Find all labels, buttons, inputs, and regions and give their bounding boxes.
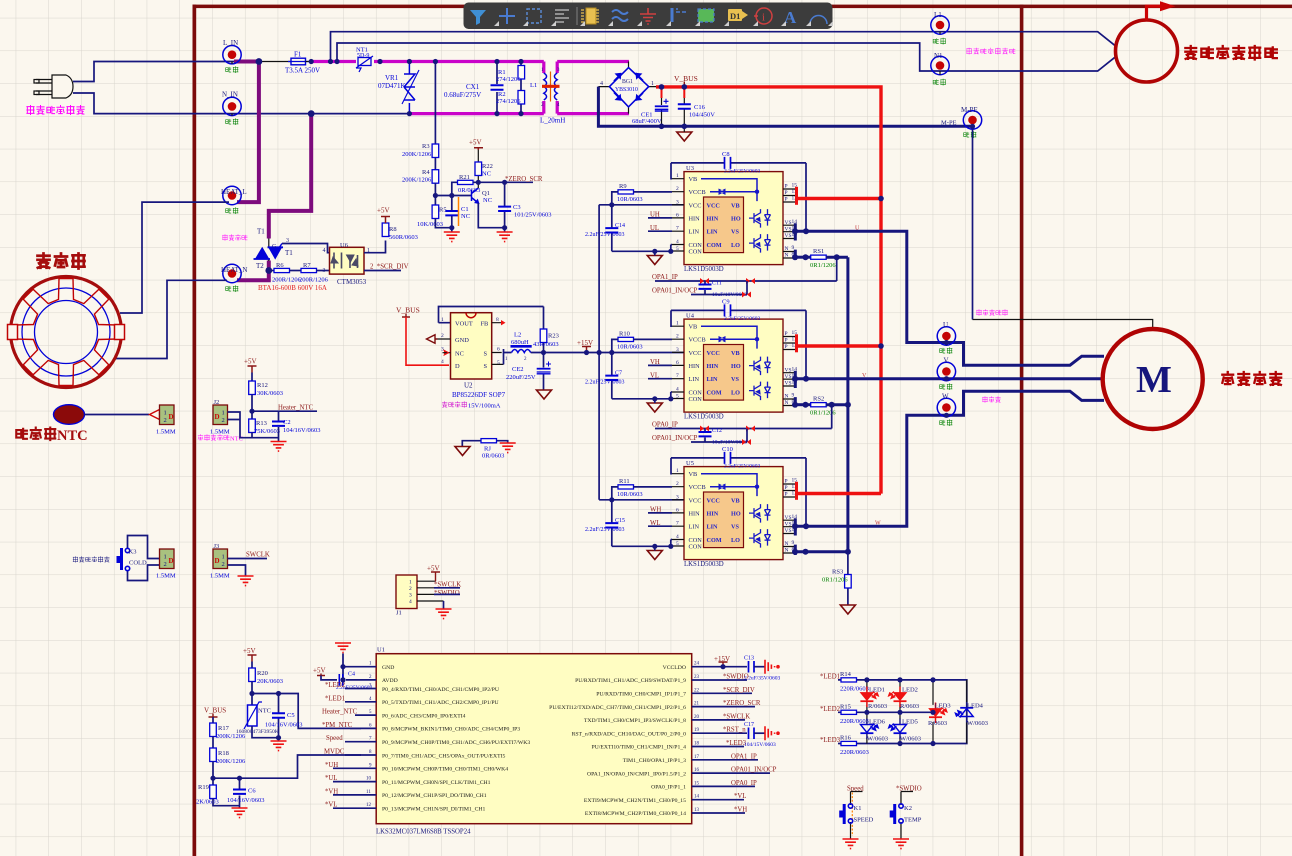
LED network rails: [838, 680, 967, 744]
wire NTC bulb to connector: [85, 414, 150, 416]
svg-text:R14: R14: [840, 671, 852, 678]
svg-text:N_IN: N_IN: [222, 91, 238, 99]
pad HEAT_N: [223, 264, 241, 282]
svg-text:2 *SCR_DIV: 2 *SCR_DIV: [370, 264, 409, 271]
svg-text:220uF/25V: 220uF/25V: [506, 374, 536, 381]
gate driver U5: [672, 467, 797, 568]
svg-text:*UL: *UL: [325, 775, 337, 782]
svg-text:2.2uF/25V/0603: 2.2uF/25V/0603: [585, 527, 625, 533]
brushless motor M: [1103, 329, 1203, 429]
svg-text:R18: R18: [218, 750, 229, 757]
wire +15V rail: [531, 352, 684, 354]
svg-text:R15: R15: [840, 703, 851, 710]
svg-text:L_IN: L_IN: [223, 39, 238, 47]
svg-text:VOUT: VOUT: [455, 321, 473, 328]
svg-text:J1: J1: [396, 610, 402, 617]
svg-text:3: 3: [323, 268, 326, 274]
LED5: [899, 712, 901, 743]
resistor RS1: [811, 255, 827, 259]
resistor R19: [210, 785, 217, 799]
svg-text:R6: R6: [276, 262, 284, 269]
svg-text:2.2uF/35V/0603: 2.2uF/35V/0603: [744, 676, 780, 682]
capacitor C16: [683, 87, 685, 98]
svg-text:200K/1206: 200K/1206: [402, 151, 432, 158]
wire red P row U3: [797, 197, 881, 200]
svg-text:D: D: [169, 557, 174, 565]
shunt bus vertical: [846, 257, 849, 552]
svg-text:R/0603: R/0603: [900, 703, 919, 710]
svg-text:+5V: +5V: [377, 207, 390, 215]
svg-text:K3: K3: [129, 549, 137, 556]
svg-text:T2: T2: [256, 262, 264, 270]
svg-text:C10: C10: [722, 446, 733, 453]
svg-text:4: 4: [323, 248, 326, 254]
svg-text:*SWDIO: *SWDIO: [434, 590, 460, 597]
wire purple triac bottom to HEAT_N: [237, 261, 269, 281]
svg-text:COLD: COLD: [129, 560, 147, 567]
varistor VR1: [378, 63, 419, 115]
resistor R3: [432, 144, 439, 158]
svg-text:V: V: [944, 357, 949, 365]
svg-text:560R/0603: 560R/0603: [389, 234, 418, 241]
svg-text:L1: L1: [934, 11, 942, 19]
svg-text:VR1: VR1: [385, 74, 399, 82]
svg-text:L2: L2: [514, 332, 521, 339]
pad W: [937, 398, 955, 416]
svg-text:D: D: [169, 413, 174, 421]
svg-text:10R/0603: 10R/0603: [617, 344, 643, 351]
svg-text:i: i: [762, 12, 765, 24]
label 接电机: [983, 397, 1001, 403]
wire W phase: [795, 391, 1104, 526]
wire red P row U5: [797, 492, 881, 495]
outlet NTC sensor bulb: [54, 405, 85, 425]
wire M-PE to motor shell: [972, 129, 974, 319]
svg-text:TXD/TIM1_CH0/CMP1_IP3/SWCLK/P1: TXD/TIM1_CH0/CMP1_IP3/SWCLK/P1_8: [584, 718, 686, 724]
svg-text:LED2: LED2: [902, 687, 918, 694]
svg-text:W/0603: W/0603: [867, 736, 888, 743]
svg-text:L_20mH: L_20mH: [540, 117, 565, 125]
svg-text:*UH: *UH: [325, 762, 338, 769]
MCU U1 LKS32MC037: [376, 654, 692, 824]
label 出风口NTC: [16, 428, 55, 441]
svg-text:104/16V/0603: 104/16V/0603: [265, 722, 303, 729]
resistor RS3: [847, 552, 849, 605]
wire CON row U5: [612, 540, 672, 547]
label 接发热丝: [223, 235, 248, 241]
svg-text:PU/EXTI12/TXD/ADC_CH7/TIM0_CH1: PU/EXTI12/TXD/ADC_CH7/TIM0_CH1/CMP1_IP2/…: [549, 705, 686, 711]
label 无刷电机: [1222, 372, 1281, 385]
svg-text:RS2: RS2: [813, 396, 824, 403]
svg-text:2: 2: [222, 561, 225, 568]
ground red at C6: [232, 808, 248, 818]
svg-text:OPA1_IN/OPA0_IN/CMP1_IP0/P1.5/: OPA1_IN/OPA0_IN/CMP1_IP0/P1.5/P1_2: [587, 771, 686, 777]
wire N row U4 to RS2: [795, 403, 811, 406]
resistor R15: [841, 710, 857, 714]
svg-text:+5V: +5V: [427, 565, 440, 573]
capacitor C12: [704, 429, 706, 443]
svg-text:C4: C4: [348, 672, 355, 678]
svg-text:C6: C6: [248, 788, 256, 795]
svg-text:C15: C15: [615, 518, 625, 524]
svg-text:200K/1206: 200K/1206: [216, 733, 246, 740]
pad N1: [931, 56, 949, 74]
wire V phase: [795, 377, 1103, 380]
svg-text:P0_6/ADC_CH3/CMP0_IP0/EXTI4: P0_6/ADC_CH3/CMP0_IP0/EXTI4: [382, 713, 466, 719]
wire magenta AC L bus: [311, 60, 629, 63]
svg-text:R21: R21: [459, 174, 470, 181]
svg-text:V_BUS: V_BUS: [674, 74, 698, 83]
svg-text:D: D: [455, 363, 460, 370]
svg-text:Heater_NTC: Heater_NTC: [322, 709, 358, 716]
svg-text:BTA16-600B 600V 16A: BTA16-600B 600V 16A: [258, 284, 327, 292]
svg-text:R3: R3: [422, 143, 430, 150]
resistor R1: [520, 62, 522, 92]
svg-text:T1: T1: [285, 249, 293, 257]
wire CON row U4: [612, 392, 672, 399]
svg-text:NTC: NTC: [258, 708, 271, 715]
capacitor C3: [478, 182, 504, 232]
pad HEAT_L: [223, 186, 241, 204]
svg-text:11: 11: [366, 790, 371, 795]
capacitor C2: [278, 411, 280, 441]
svg-text:SPEED: SPEED: [854, 817, 874, 824]
svg-text:1.5MM: 1.5MM: [156, 429, 176, 436]
svg-text:1: 1: [409, 580, 412, 586]
capacitor C4: [339, 674, 343, 686]
regulator U2 BP85226DF: [427, 307, 544, 410]
svg-text:+5V: +5V: [243, 647, 256, 655]
svg-text:+5V: +5V: [313, 667, 326, 675]
power +5V at R8: [381, 217, 390, 224]
svg-text:F1: F1: [294, 51, 302, 59]
wire R20 node to MCU: [213, 694, 361, 779]
svg-text:S: S: [484, 363, 488, 370]
svg-text:U3: U3: [686, 165, 694, 172]
wire U phase: [795, 231, 1104, 365]
svg-text:C12: C12: [712, 428, 722, 434]
svg-text:1.5MM: 1.5MM: [210, 573, 230, 580]
svg-text:+15V: +15V: [577, 339, 593, 347]
svg-text:LED6: LED6: [869, 719, 886, 726]
power +5V at R22: [474, 148, 483, 150]
svg-text:2: 2: [222, 417, 225, 424]
svg-text:GND: GND: [455, 337, 469, 344]
svg-text:BG1: BG1: [622, 79, 633, 85]
svg-text:*LED3: *LED3: [820, 737, 841, 744]
svg-text:W/0603: W/0603: [900, 736, 921, 743]
MCU left inner pin names: [382, 665, 530, 813]
svg-text:*ZERO_SCR: *ZERO_SCR: [723, 700, 761, 707]
wire AC sense to divider: [434, 62, 436, 145]
wire N from plug: [73, 93, 311, 114]
inductor L1 common-mode choke: [530, 62, 565, 125]
toolbar: [464, 3, 834, 30]
wire purple L leg to HEAT_L: [234, 62, 259, 203]
svg-text:R/0603: R/0603: [928, 720, 947, 727]
resistor R14: [841, 678, 857, 682]
svg-text:C7: C7: [615, 371, 622, 377]
svg-text:Speed: Speed: [326, 735, 343, 742]
connector for K3: [160, 549, 175, 569]
svg-text:W: W: [942, 393, 949, 401]
svg-text:10R/0603: 10R/0603: [617, 196, 643, 203]
wire magenta AC N bus: [409, 112, 629, 115]
svg-text:*LED1: *LED1: [325, 695, 345, 702]
svg-text:CTM3053: CTM3053: [337, 278, 367, 286]
MCU top ground: [335, 643, 351, 653]
svg-text:2: 2: [164, 417, 167, 424]
svg-text:10R/0603: 10R/0603: [617, 491, 643, 498]
resistor RJ net-tie: [462, 441, 507, 447]
svg-text:2.2uF/25V/0603: 2.2uF/25V/0603: [585, 232, 625, 238]
resistor R17: [212, 717, 214, 723]
svg-text:C17: C17: [744, 722, 754, 728]
MCU left pin wires: [333, 689, 376, 809]
svg-text:0R/0603: 0R/0603: [482, 453, 504, 460]
svg-text:K2: K2: [904, 805, 912, 812]
svg-text:5: 5: [497, 360, 500, 366]
ground red at J3: [238, 576, 254, 586]
negative ion generator: [1116, 20, 1178, 82]
svg-text:R17: R17: [218, 725, 230, 732]
svg-text:LED4: LED4: [967, 703, 984, 710]
svg-text:10: 10: [366, 777, 372, 782]
svg-text:G: G: [272, 244, 277, 250]
svg-text:+5V: +5V: [469, 139, 482, 147]
resistor R8: [364, 241, 386, 253]
capacitor C13: [749, 661, 755, 673]
svg-text:R7: R7: [303, 262, 311, 269]
capacitor C6: [233, 790, 246, 794]
svg-text:104/16V/0603: 104/16V/0603: [283, 427, 321, 434]
svg-text:R4: R4: [422, 169, 430, 176]
svg-text:HEAT_N: HEAT_N: [221, 266, 247, 274]
pad U: [937, 327, 955, 345]
ground triangle RS3: [840, 605, 855, 614]
connector arrow: [150, 410, 160, 420]
svg-text:1: 1: [164, 410, 167, 417]
svg-text:0R1/1206: 0R1/1206: [822, 577, 848, 584]
svg-text:200R/1206: 200R/1206: [299, 277, 329, 284]
LED3: [932, 680, 934, 744]
svg-text:*LED1: *LED1: [820, 674, 840, 681]
svg-text:NC: NC: [461, 213, 470, 220]
svg-text:R1: R1: [498, 69, 506, 76]
svg-text:0.68uF/275V: 0.68uF/275V: [444, 91, 481, 99]
resistor R10: [618, 337, 634, 341]
svg-text:NC: NC: [482, 171, 491, 178]
resistor R5: [432, 205, 439, 219]
svg-text:1: 1: [651, 81, 654, 87]
svg-text:6: 6: [497, 347, 500, 353]
svg-text:AVDD: AVDD: [382, 678, 398, 684]
resistor R6: [269, 270, 274, 272]
svg-text:U2: U2: [464, 382, 473, 390]
resistor R16: [841, 741, 857, 745]
svg-text:+5V: +5V: [244, 358, 257, 366]
wire HEAT_L to heater: [120, 202, 229, 313]
svg-text:*SWCLK: *SWCLK: [723, 713, 750, 720]
svg-text:TIM1_CH0/OPA1_IP/P1_3: TIM1_CH0/OPA1_IP/P1_3: [623, 758, 686, 764]
svg-text:J2: J2: [214, 399, 220, 406]
svg-text:1: 1: [222, 554, 225, 561]
svg-text:HEAT_L: HEAT_L: [221, 188, 247, 196]
svg-text:*LED2: *LED2: [325, 682, 346, 689]
svg-text:LED1: LED1: [869, 687, 885, 694]
svg-text:PU/RXD/TIM0_CH0/CMP1_IP1/P1_7: PU/RXD/TIM0_CH0/CMP1_IP1/P1_7: [596, 692, 686, 698]
svg-text:*VL: *VL: [325, 802, 337, 809]
svg-text:MVDC: MVDC: [324, 749, 345, 756]
svg-text:20K/0603: 20K/0603: [257, 678, 283, 685]
transistor Q1: [472, 188, 479, 203]
resistor R22: [477, 150, 479, 188]
svg-text:P0_13/MCPWM_CH1N/SPI_DI/TIM1_C: P0_13/MCPWM_CH1N/SPI_DI/TIM1_CH1: [382, 807, 485, 813]
pad L1: [931, 16, 949, 34]
connector J3: [213, 549, 228, 569]
svg-text:C3: C3: [513, 204, 521, 211]
svg-text:104/450V: 104/450V: [689, 112, 715, 119]
svg-text:U: U: [943, 321, 948, 329]
svg-text:104/16V/0603: 104/16V/0603: [227, 797, 265, 804]
label 交流电压输入: [27, 106, 84, 115]
driver supply row U3: [599, 204, 684, 206]
bridge rectifier BG1 YBS3010: [598, 62, 656, 114]
svg-text:SWCLK: SWCLK: [246, 552, 270, 559]
svg-text:4: 4: [600, 81, 603, 87]
svg-text:2.2uF/25V/0603: 2.2uF/25V/0603: [724, 168, 760, 174]
svg-text:680uH: 680uH: [511, 339, 529, 346]
svg-text:2.2uF/25V/0603: 2.2uF/25V/0603: [724, 316, 760, 322]
svg-text:2K/0603: 2K/0603: [196, 799, 219, 806]
resistor R7: [290, 270, 302, 272]
svg-text:U4: U4: [686, 313, 695, 320]
connector socket: [160, 405, 175, 425]
svg-text:*RST_n: *RST_n: [723, 727, 746, 734]
capacitor CE1: [661, 87, 663, 98]
fuse F1: [291, 58, 306, 65]
svg-text:2.2uF/25V/0603: 2.2uF/25V/0603: [585, 380, 625, 386]
LED4: [966, 680, 968, 744]
svg-text:RJ: RJ: [484, 446, 491, 453]
wire J2 to R13 C2: [228, 412, 279, 438]
label 一档冷风开关: [73, 557, 109, 563]
capacitor C8 bootstrap: [671, 163, 806, 231]
svg-text:R12: R12: [257, 382, 268, 389]
optocoupler U6 CTM3053: [323, 242, 371, 286]
svg-text:2: 2: [409, 586, 412, 592]
svg-text:R22: R22: [482, 163, 493, 170]
connector J2: [213, 405, 228, 425]
svg-text:220R/0603: 220R/0603: [840, 749, 869, 756]
svg-text:C16: C16: [694, 104, 706, 111]
resistor R12: [251, 373, 253, 382]
pad M-PE: [963, 111, 981, 129]
svg-text:OPA01_IN/OCP: OPA01_IN/OCP: [652, 435, 698, 442]
ground red at C5: [271, 741, 287, 751]
svg-text:1: 1: [441, 317, 444, 323]
heater coil element: [8, 277, 125, 388]
svg-text:RS1: RS1: [813, 248, 824, 255]
ground triangle U4: [647, 403, 662, 412]
svg-text:C9: C9: [722, 299, 730, 306]
svg-text:PU/EXTI10/TIM0_CH1/CMP1_IN/P1_: PU/EXTI10/TIM0_CH1/CMP1_IN/P1_4: [592, 745, 687, 751]
svg-text:P0_5/TXD/TIM1_CH1/ADC_CH2/CMP0: P0_5/TXD/TIM1_CH1/ADC_CH2/CMP0_IP1/PU: [382, 700, 499, 706]
svg-text:D: D: [215, 557, 220, 565]
wire red P row U4: [797, 344, 881, 347]
svg-text:NTC: NTC: [57, 428, 88, 444]
resistor R23: [543, 307, 545, 353]
svg-text:5D-9: 5D-9: [357, 53, 369, 59]
label 接负离子发生器: [967, 48, 1015, 54]
wire fuse to bus: [306, 61, 314, 63]
svg-text:LED5: LED5: [902, 719, 918, 726]
svg-text:C13: C13: [744, 656, 754, 662]
MCU right pin wires: [692, 667, 770, 813]
svg-text:N1: N1: [934, 52, 943, 60]
svg-text:LKS32MC037LM6S8B TSSOP24: LKS32MC037LM6S8B TSSOP24: [376, 829, 471, 836]
power +15V symbol: [582, 347, 591, 353]
svg-text:V_BUS: V_BUS: [396, 306, 420, 315]
svg-text:R8: R8: [389, 226, 397, 233]
svg-text:274/1206: 274/1206: [496, 76, 521, 83]
svg-text:C8: C8: [722, 151, 730, 158]
svg-text:*SCR_DIV: *SCR_DIV: [723, 687, 755, 694]
svg-text:2: 2: [441, 333, 444, 339]
resistor R21: [458, 180, 474, 184]
ground triangle U3: [647, 256, 662, 265]
svg-text:200K/1206: 200K/1206: [402, 177, 432, 184]
svg-text:LED3: LED3: [935, 703, 951, 710]
resistor R9: [618, 190, 634, 194]
svg-text:D1: D1: [730, 11, 740, 21]
capacitor C10 bootstrap: [671, 458, 806, 526]
driver supply row U5: [599, 499, 684, 501]
svg-text:4: 4: [409, 599, 412, 605]
svg-text:U5: U5: [686, 460, 694, 467]
svg-text:P0_8/MCPWM_BKIN1/TIM0_CH0/ADC_: P0_8/MCPWM_BKIN1/TIM0_CH0/ADC_CH4/CMP0_I…: [382, 727, 520, 733]
svg-text:*VH: *VH: [734, 807, 747, 814]
LED1: [866, 680, 868, 712]
wire DC minus bus: [598, 87, 972, 127]
svg-text:L1: L1: [530, 82, 537, 89]
switch K3 cold air: [128, 536, 161, 581]
svg-text:U1: U1: [377, 647, 385, 654]
svg-text:3: 3: [441, 347, 444, 353]
svg-text:75K/0603: 75K/0603: [254, 428, 280, 435]
svg-text:C2: C2: [283, 419, 291, 426]
MCU right inner pin names: [549, 665, 686, 817]
capacitor C17: [749, 728, 755, 740]
svg-text:P0_9/MCPWM_CH0P/TIM0_CH1/ADC_C: P0_9/MCPWM_CH0P/TIM0_CH1/ADC_CH6/PU/EXTI…: [382, 740, 530, 746]
svg-text:NTC: NTC: [230, 436, 243, 443]
ground triangle CE2: [537, 390, 552, 399]
power +5V at R20: [248, 655, 257, 662]
svg-text:101/25V/0603: 101/25V/0603: [514, 212, 552, 219]
svg-text:2: 2: [164, 561, 167, 568]
wire N row U5 to RS3: [795, 550, 848, 553]
svg-text:TEMP: TEMP: [904, 817, 922, 824]
svg-text:OPA1_IP: OPA1_IP: [652, 274, 678, 281]
svg-text:*ZERO_SCR: *ZERO_SCR: [505, 176, 543, 183]
svg-text:RST_n/RXD/ADC_CH10/DAC_OUT/P0_: RST_n/RXD/ADC_CH10/DAC_OUT/P0_2/P0_0: [572, 731, 687, 737]
svg-text:P0_7/TIM0_CH1/ADC_CH5/OPAx_OUT: P0_7/TIM0_CH1/ADC_CH5/OPAx_OUT/PU/EXTI5: [382, 753, 506, 759]
label 外接发热丝NTC: [198, 435, 229, 441]
svg-text:R13: R13: [256, 420, 267, 427]
svg-text:1: 1: [222, 410, 225, 417]
LED2: [899, 680, 901, 712]
svg-text:J3: J3: [214, 543, 220, 550]
